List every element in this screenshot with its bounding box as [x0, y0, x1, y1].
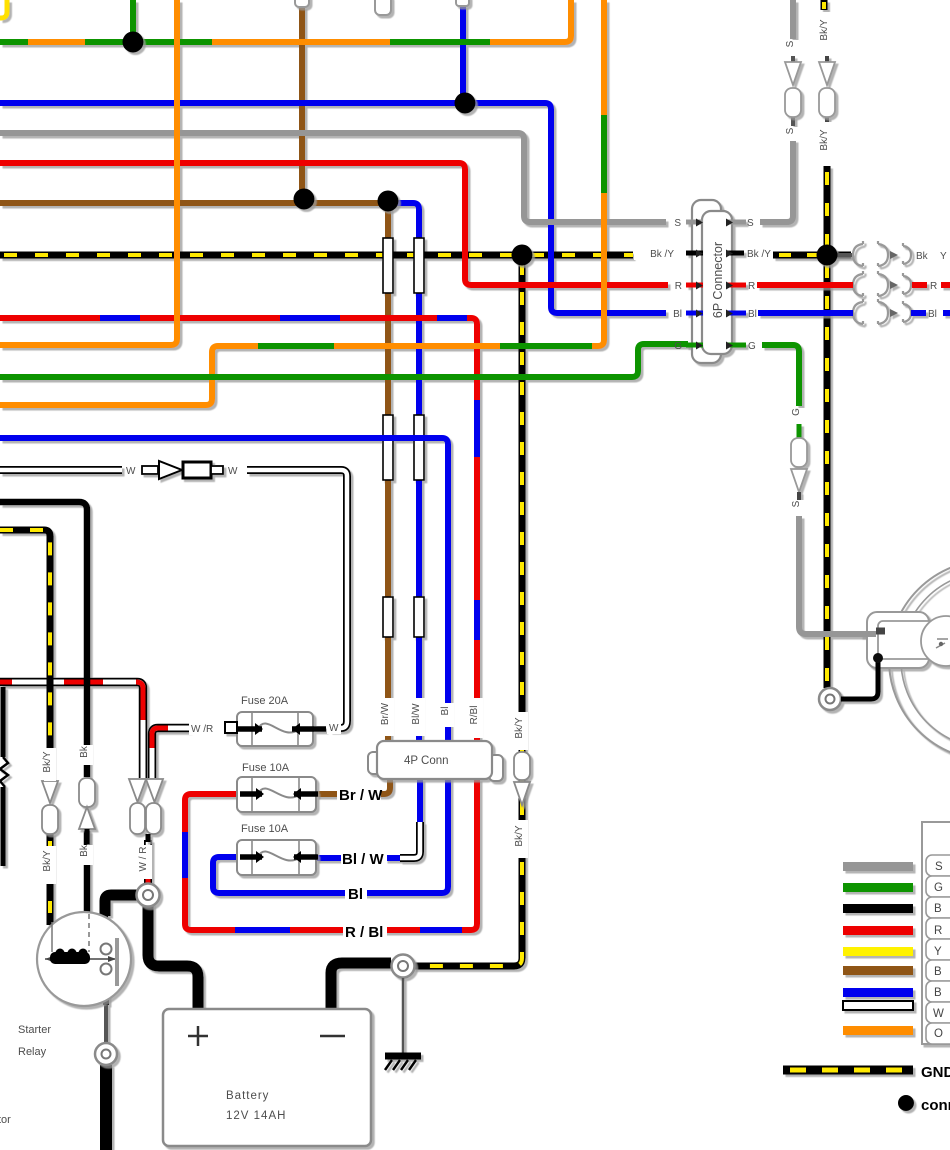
label W/R rotated x=146: [140, 845, 152, 879]
label Bk rotated x=87 upper: [81, 745, 93, 765]
wire black headlight ground: [841, 660, 878, 699]
relay coil: [45, 958, 116, 960]
junction dot brown/blue x=388: [378, 191, 399, 212]
svg-text:R/Bl: R/Bl: [469, 706, 480, 725]
wire gray S horizontal y=133 to 6P connector pin S: [0, 133, 666, 222]
svg-text:Bk/Y: Bk/Y: [514, 717, 525, 738]
label Bk/Y rotated chain x=827 top: [821, 12, 833, 54]
connector white sleeve on Br/W x=388 upper: [383, 238, 393, 293]
connector white at top x=383: [375, 0, 391, 15]
junction dot blue y=103: [455, 93, 476, 114]
svg-text:W: W: [126, 466, 136, 477]
svg-text:Br/W: Br/W: [380, 702, 391, 725]
wire Bl/W from fuse 10A right to 4P connector pin 2: [316, 855, 342, 861]
svg-text:G: G: [674, 341, 682, 352]
wire thick starter motor lead to bottom: [100, 1065, 112, 1150]
wire Bk/Y ground bus right of 6P connector: [773, 252, 851, 259]
bullet connector row Bk/Y y=255: [853, 241, 911, 266]
label Br/W rotated x=388: [382, 698, 394, 736]
wire thick from ring to starter relay contact: [105, 895, 140, 916]
wire blue jog from junction to Bl/W vertical: [388, 203, 419, 240]
label W at fuse 20A: [327, 720, 341, 734]
svg-text:Battery: Battery: [226, 1090, 269, 1102]
svg-text:tor: tor: [0, 1114, 11, 1126]
label Bk/Y rotated chain x=827 lower: [821, 122, 833, 164]
wire Bk corner y=502 down x=87 to starter relay: [0, 502, 87, 777]
6P connector left pin stubs: [686, 220, 703, 225]
svg-text:Bl: Bl: [748, 309, 757, 320]
legend swatch R red: [843, 926, 913, 935]
svg-text:B: B: [934, 987, 942, 999]
wire white W from diode down x=347 to fuse 20A: [247, 470, 347, 728]
svg-text:W /R: W /R: [191, 724, 213, 735]
label Bk/Y rotated x=50 upper: [44, 748, 56, 781]
label S rotated chain x=799: [793, 500, 805, 514]
legend GND dashed bar: [783, 1066, 913, 1075]
svg-text:Bl: Bl: [348, 886, 363, 903]
wire black with coil at left edge x=3: [1, 687, 6, 757]
label Bk/Y left of 6P: [634, 247, 674, 260]
svg-text:S: S: [785, 40, 796, 47]
svg-text:G: G: [934, 882, 943, 894]
svg-text:B: B: [934, 966, 942, 978]
legend swatch Br brown: [843, 966, 913, 975]
connector bullet pair on Bk/Y x=522: [514, 752, 530, 805]
svg-text:W: W: [228, 466, 238, 477]
svg-text:Bk/Y: Bk/Y: [42, 850, 53, 871]
wire green horizontal y=377 jog to 6P connector pin G: [0, 344, 688, 377]
svg-text:Bl: Bl: [928, 309, 937, 320]
wire white W horizontal left segment y=470: [0, 466, 122, 474]
headlight shell arcs: [889, 560, 950, 760]
wire W/R below double connector to ring terminal: [144, 840, 152, 884]
connector bullet pair on Bk/Y x=50: [42, 781, 58, 834]
svg-text:R: R: [675, 281, 682, 292]
svg-text:S: S: [674, 218, 681, 229]
svg-text:Bk/Y: Bk/Y: [819, 129, 830, 150]
label G rotated chain x=799: [793, 408, 805, 423]
label Br / W bold: [337, 786, 381, 802]
legend table letters: [933, 861, 944, 1040]
junction headlight ground: [873, 653, 883, 663]
svg-text:Br / W: Br / W: [339, 787, 383, 804]
svg-text:Y: Y: [934, 946, 942, 958]
svg-text:Bl: Bl: [673, 309, 682, 320]
svg-text:W: W: [933, 1008, 944, 1020]
label Bk/Y rotated x=50 lower: [44, 846, 56, 884]
relay contacts: [101, 944, 112, 955]
svg-text:Bl / W: Bl / W: [342, 851, 385, 868]
wire Bl/W vertical x=419 to 4P connector: [416, 209, 422, 741]
svg-text:Fuse 10A: Fuse 10A: [242, 762, 290, 774]
bullet connector row Bl y=313: [853, 299, 911, 324]
label Bl bold: [345, 885, 367, 901]
wire thick battery negative lead: [331, 963, 391, 1010]
svg-text:S: S: [935, 861, 943, 873]
label Bl rotated x=448: [442, 703, 454, 727]
svg-text:Bk: Bk: [916, 251, 929, 262]
wire blue horizontal y=103 to 6P connector pin Bl: [0, 103, 666, 313]
label R / Bl bold: [343, 922, 387, 938]
connector stub at top x=302: [295, 0, 309, 7]
svg-text:G: G: [748, 341, 756, 352]
ground symbol below negative ring: [402, 978, 405, 1053]
legend connection dot: [898, 1095, 914, 1111]
wire Bk/Y corner y=530 down x=50 to starter relay: [0, 530, 50, 779]
svg-text:Fuse 10A: Fuse 10A: [241, 823, 289, 835]
label Bl/W rotated x=419: [413, 698, 425, 736]
junction dot Bk/Y x=522: [512, 245, 533, 266]
connector 4P Conn: [368, 752, 381, 774]
wire Bk/Y chain x=827 top right: [821, 0, 828, 10]
svg-text:4P Conn: 4P Conn: [404, 755, 449, 767]
wire Bk/Y ground bus horizontal y=255: [0, 252, 633, 259]
svg-text:Starter: Starter: [18, 1024, 51, 1036]
svg-text:Bk /Y: Bk /Y: [650, 249, 674, 260]
connector white sleeve on Br/W x=388 middle: [383, 415, 393, 480]
bullet connector row R y=285: [853, 271, 911, 296]
label R/Bl rotated x=477: [471, 698, 483, 738]
connector 6P Connector: [692, 200, 721, 363]
connector double bullet on W/R pair: [129, 779, 163, 834]
svg-text:W: W: [329, 723, 339, 734]
wire green G chain from 6P right pin down x=799: [762, 345, 799, 406]
legend color table: [922, 822, 950, 1044]
wire brown horizontal y=203: [0, 200, 388, 206]
wire W/R horizontal y=682 down x=143 to double connector: [0, 682, 143, 778]
label Bk rotated x=87 lower: [81, 845, 93, 865]
connector bullet pair on Bk/Y chain x=827: [819, 62, 835, 117]
legend swatch S gray: [843, 862, 913, 871]
connector white sleeve on Bl/W x=419 lower: [414, 597, 424, 637]
connector white sleeve on Bl/W x=419 middle: [414, 415, 424, 480]
label Bl / W bold: [341, 850, 387, 866]
ring terminal battery negative: [392, 955, 415, 978]
wire Bk/Y ground vertical x=522 down to battery ring: [413, 255, 522, 966]
wire red horizontal y=163 to 6P connector pin R: [0, 163, 668, 285]
svg-text:R / Bl: R / Bl: [345, 924, 383, 941]
label S rotated chain x=793 lower: [787, 127, 799, 141]
legend swatch Bl blue: [843, 988, 913, 997]
svg-text:12V 14AH: 12V 14AH: [226, 1110, 286, 1122]
wire relay lower contact to ring: [103, 974, 109, 1005]
wire orange vertical x=177 corner to left y=345: [0, 0, 177, 345]
label Bk/Y rotated x=522 lower: [516, 820, 528, 858]
diode in white wire: [142, 466, 158, 474]
svg-text:Bl: Bl: [440, 707, 451, 716]
connector bullet pair on G/S chain x=799: [791, 438, 807, 492]
wire gray S chain x=793 top right: [790, 0, 796, 39]
connector white sleeve on Br/W x=388 lower: [383, 597, 393, 637]
legend swatch O orange: [843, 1026, 913, 1035]
svg-text:Bk/Y: Bk/Y: [819, 19, 830, 40]
label W/R at fuse 20A left: [189, 722, 219, 735]
connector bullet pair on Bk x=87: [79, 778, 95, 829]
svg-text:Bl/W: Bl/W: [411, 703, 422, 725]
svg-text:B: B: [934, 903, 942, 915]
6P connector right pin stubs: [726, 220, 746, 225]
legend swatch W white: [843, 1001, 913, 1010]
wire W/R branch x=152 to fuse 20A left: [152, 728, 190, 778]
ring terminal starter motor: [95, 1043, 117, 1065]
svg-text:S: S: [791, 500, 802, 507]
fuse F1 20A: [237, 712, 313, 746]
wire brown vertical from top connector x=302: [299, 7, 305, 201]
fuse F3 10A lower: [237, 840, 316, 875]
svg-text:Bk: Bk: [79, 745, 90, 758]
svg-text:Relay: Relay: [18, 1046, 47, 1058]
legend swatch Bk black: [843, 904, 913, 913]
wire R/Bl from fuse 10A left down and right to 4P connector pin 4: [185, 779, 477, 930]
wire green vertical x=133: [130, 0, 136, 41]
connector bullet pair on S chain x=793: [785, 62, 801, 117]
svg-text:W / R: W / R: [138, 847, 149, 872]
fuse F2 10A upper: [237, 777, 316, 812]
svg-text:6P Connector: 6P Connector: [711, 242, 725, 318]
battery 12V 14AH: [163, 1009, 371, 1146]
svg-text:conn: conn: [921, 1097, 950, 1114]
wire Bk/Y from negative ring to x=522 riser: [414, 963, 418, 970]
wire thick battery positive lead: [148, 903, 198, 1010]
svg-text:S: S: [785, 127, 796, 134]
legend swatch G green: [843, 883, 913, 892]
label Bk/Y rotated x=522 upper: [516, 712, 528, 750]
svg-text:O: O: [934, 1028, 943, 1040]
starter relay body: [37, 912, 131, 1006]
legend swatch Y yellow: [843, 947, 913, 956]
svg-text:Y: Y: [940, 251, 947, 262]
connector stub at top x=463: [456, 0, 469, 6]
svg-text:Bk/Y: Bk/Y: [42, 751, 53, 772]
wire gray S to headlight: [799, 516, 884, 634]
svg-text:R: R: [930, 281, 937, 292]
wire blue horizontal y=438 down x=448 through 4P conn to fuse 10A: [0, 438, 448, 893]
junction dot brown x=302: [294, 189, 315, 210]
label S rotated top chain: [787, 40, 799, 54]
wire G/O multicolor horizontal y=42: [0, 39, 28, 45]
junction dot green y=42: [123, 32, 144, 53]
headlight bulb housing: [867, 612, 929, 668]
svg-text:Bk /Y: Bk /Y: [747, 249, 771, 260]
wire Br/W vertical x=388 to 4P connector: [385, 200, 391, 741]
svg-text:R: R: [934, 925, 942, 937]
junction dot Bk/Y x=827: [817, 245, 838, 266]
wire Br/W from fuse 10A right to 4P connector pin 1: [316, 791, 340, 797]
svg-text:G: G: [791, 408, 802, 416]
svg-text:Bk: Bk: [79, 844, 90, 857]
ring terminal battery positive: [137, 884, 160, 907]
wire O/G multicolor jogging y=405/346 up vertical x=604: [0, 0, 604, 405]
svg-text:Bk/Y: Bk/Y: [514, 825, 525, 846]
svg-text:GND: GND: [921, 1064, 950, 1081]
wire yellow corner top-left: [0, 0, 7, 18]
wire blue vertical from top connector x=463: [460, 6, 466, 101]
svg-text:R: R: [748, 281, 755, 292]
svg-text:S: S: [747, 218, 754, 229]
svg-text:Fuse 20A: Fuse 20A: [241, 695, 289, 707]
wire R/Bl horizontal y=318 and vertical x=477 to 4P connector: [0, 318, 477, 741]
connector white sleeve on Bl/W x=419 upper: [414, 238, 424, 293]
ring terminal headlight ground: [819, 688, 841, 710]
